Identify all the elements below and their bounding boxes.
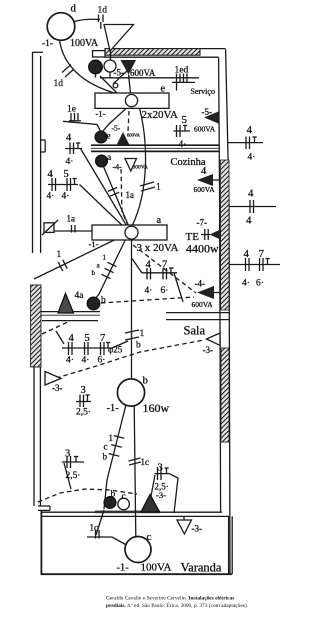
svg-text:4: 4 [246,215,252,227]
wall right inner line [219,57,221,512]
outlet triangle Varanda filled up [141,495,160,513]
svg-text:4: 4 [244,248,250,260]
switch 1 b conduit ticks [125,330,139,340]
outlet triangle Varanda open below wall (-3-) [177,520,191,534]
wire dashed Varanda arc [38,489,137,502]
wire triangle top to outlet circle [110,51,112,60]
wire 1c run to lamp c [112,537,127,545]
wire outlet b down to 1c run [96,510,104,535]
svg-text:100VA: 100VA [70,38,99,49]
wire fixture 1 to outlet e [103,106,129,131]
wire dashed door gap left [42,321,70,334]
svg-text:-1-: -1- [107,403,120,414]
outlet triangle top open (circuit 1d) [104,25,134,52]
svg-text:4: 4 [69,333,75,344]
wire link 457 group to conduit [112,341,128,348]
svg-text:4: 4 [248,188,254,200]
outlet triangle left wall Sala open (-3-) [45,372,61,386]
svg-text:-7-: -7- [197,218,208,228]
outlet triangle right wall Cozinha (4 600VA) [197,174,220,186]
lamp b 160w [117,379,144,406]
outlet triangle Sala bottom filled up (4a) [58,294,74,314]
svg-text:1c: 1c [90,523,99,533]
svg-text:b: b [92,269,96,277]
svg-text:1c: 1c [141,457,150,467]
svg-text:3: 3 [81,385,86,396]
switch 1c mid [129,458,142,465]
wire 1c horizontal run [87,536,112,538]
svg-text:600VA: 600VA [194,185,216,194]
svg-text:1d: 1d [98,6,108,16]
svg-text:4: 4 [247,124,253,136]
svg-text:6·: 6· [98,356,106,366]
wire lamp d to fixture 1 [60,41,116,94]
svg-text:5: 5 [182,114,188,126]
wire switch 1e to outlet e [63,121,101,131]
svg-text:c: c [104,442,108,452]
svg-text:4: 4 [48,169,54,180]
wire diagonal left wall to fixture 2 [34,237,122,280]
svg-text:1: 1 [57,250,62,260]
svg-text:prediais. 4.ª ed. São Paulo: É: prediais. 4.ª ed. São Paulo: Érica, 2000… [106,601,248,609]
wire triangle 600VA drop to fixture 1 [129,75,131,94]
wall bottom [41,573,232,575]
svg-text:600VA: 600VA [127,133,141,138]
wire link 457 group left [56,331,64,344]
outlet triangle open V (Cozinha -4- 600VA) [125,159,137,172]
svg-text:b: b [101,296,106,306]
wire switch 3 left slant [64,463,71,489]
svg-text:4·: 4· [145,286,153,296]
svg-text:4·: 4· [47,192,55,202]
switch 4 left wall [65,143,82,155]
svg-text:Sala: Sala [184,324,206,338]
switch 1d top [99,15,104,30]
svg-text:600VA: 600VA [192,300,214,309]
wire drop from open box top [109,72,111,78]
wall right hatched band (Sala) [221,348,229,442]
svg-text:1a: 1a [126,190,135,200]
wire wall switch 4-5 to fixture 2 [80,185,128,231]
svg-text:e: e [107,132,111,142]
svg-text:2x20VA: 2x20VA [142,109,179,121]
svg-text:-1-: -1- [89,239,99,249]
svg-text:Varanda: Varanda [181,561,222,575]
wall Sala north, left segment [40,312,100,321]
svg-text:6·: 6· [161,286,169,296]
wire parallel into fixture 1 [100,76,118,94]
svg-text:4·: 4· [248,153,256,163]
wire main vertical fixture 2 to lamp b [131,240,133,379]
svg-text:-3-: -3- [156,490,166,500]
svg-text:7: 7 [259,248,265,260]
wall right hatched band (Cozinha) [221,160,229,310]
wire lamp d to switch 1d top [75,19,101,21]
svg-text:b: b [111,490,116,500]
svg-text:-3-: -3- [203,345,214,355]
svg-text:c: c [147,531,152,543]
wall left Varanda [40,510,42,574]
svg-text:6·: 6· [256,279,264,289]
wire fixture 2 to outlet b Sala [96,240,126,299]
wall left lower, inner line [39,367,41,506]
ceiling box dark (top, near lamp outlets) [89,60,103,74]
wire dashed outlet b to outlet -4- [101,297,194,303]
switch 1c bottom [96,530,100,539]
wall top (Serviço north wall, hatched) [105,49,200,56]
svg-text:4·: 4· [179,140,187,150]
lamp c 100VA [125,537,151,563]
ceiling box dark a [96,155,108,167]
outlet triangle filled below top wall (600VA) [121,60,137,75]
svg-text:100VA: 100VA [141,562,172,574]
svg-text:160w: 160w [143,401,170,415]
svg-text:4a: 4a [75,291,85,301]
wall left lower step [38,506,50,510]
outlet triangle filled up (near e outlet) [116,132,130,146]
ceiling box dark e [95,131,107,143]
svg-text:3: 3 [65,449,70,460]
switch 1a left [72,225,76,233]
wire dashed fixture 1 to triangle [128,111,129,131]
wall mounting bar under Varanda outlets [95,511,160,514]
svg-text:2,5·: 2,5· [66,471,81,481]
svg-text:-5-: -5- [202,107,213,117]
wire wall switch 4 to fixture 2 [81,149,129,229]
wire horizontal under top outlets [100,77,199,79]
svg-text:e: e [161,84,166,95]
ceiling box open circle (top) [104,60,116,72]
switch 1ed [172,74,195,83]
svg-text:4·: 4· [242,279,250,289]
switch 3 2,5 Varanda [155,467,171,480]
svg-text:1e: 1e [67,105,76,115]
TE arrow with ticks (shower feed) [201,229,221,240]
wall right outer line [226,49,230,574]
wire 1ed drop [176,82,178,90]
wall Varanda north [41,512,230,516]
switch 3 2,5 Sala [76,395,91,408]
wall left hatched band [31,285,41,367]
switch 1d on lamp d wire [62,65,74,78]
switch 5 4 under fixture 1 [174,125,191,137]
svg-text:600VA: 600VA [130,68,156,78]
svg-text:2,5·: 2,5· [76,408,91,418]
svg-text:c: c [122,492,126,502]
wire dashed Cozinha triangle to fixture 2 [121,169,128,225]
wire Varanda switch right side [170,474,178,513]
svg-text:1: 1 [103,254,107,262]
svg-text:5: 5 [85,333,90,344]
outlet triangle right wall Sala open (-3-) [207,333,221,345]
svg-text:3 x 20VA: 3 x 20VA [137,242,179,254]
svg-text:1a: 1a [67,214,76,224]
wire stub to open triangle Varanda [183,516,185,520]
svg-text:1: 1 [140,329,145,339]
svg-text:4·: 4· [66,157,74,167]
svg-text:φ25: φ25 [108,345,123,355]
svg-text:5: 5 [64,169,69,180]
svg-text:600VA: 600VA [133,165,149,171]
svg-text:b: b [143,375,149,387]
switch 1e [69,113,81,121]
node loop above fixture 1 [113,83,118,88]
switch 1 on diagonal [58,260,67,271]
svg-text:600VA: 600VA [194,125,216,134]
wall Varanda right double [229,516,233,574]
svg-text:-1-: -1- [96,109,106,119]
wire fixture 1 to fixture 2 long curve [132,106,146,226]
svg-text:4·: 4· [66,356,74,366]
switch 4-5-7 Sala [62,342,112,355]
wire dashed Sala crossing [56,340,204,378]
svg-text:3: 3 [158,463,163,474]
wire right feeder 1 [228,137,263,150]
wire left box 1a to fixture 2 [54,230,92,232]
wire lamp b to Varanda outlet b [104,406,126,510]
wall between Serviço and Cozinha [91,145,220,151]
fluorescent fixture 2x20VA (Serviço) [95,93,169,108]
ceiling box open c (Varanda) [118,498,130,510]
outlet triangle right wall Serviço (-5- 600VA) [204,111,220,124]
wall left top cap [32,51,43,53]
ceiling box dark b (Sala) [87,297,100,310]
wall Sala north, right segment [166,313,230,320]
svg-text:4: 4 [66,133,72,144]
outlet triangle right wall lower (-4- 600VA) [197,286,220,299]
svg-text:7: 7 [100,333,105,344]
switch 3 2,5 left [62,456,84,468]
wire Varanda switch left side [148,475,155,512]
svg-text:-1-: -1- [42,39,53,49]
switch 1 c b on lamp b left wire [109,436,125,457]
svg-text:1: 1 [156,183,161,193]
svg-text:b: b [136,341,141,351]
wall left upper, outer line [32,52,34,253]
wire right feeder 3 [229,258,280,271]
wall box diagonal strike [42,220,58,235]
wire crossing X above fixture 1 [113,71,128,85]
wire outlet a to fixture 2 [104,167,129,227]
svg-text:-5-: -5- [112,124,121,133]
ceiling box dark b (Varanda) [104,497,116,509]
svg-text:4·: 4· [82,356,90,366]
switch ticks a b on Sala drop [102,262,117,278]
svg-text:b: b [103,452,108,462]
lamp d 100VA [47,13,75,41]
wire drop from dark box top [95,74,97,78]
fluorescent fixture 3x20VA (Cozinha) [92,225,167,240]
svg-text:-3-: -3- [192,524,203,534]
wall top left end cap [93,51,106,57]
svg-text:-5-: -5- [114,68,125,78]
svg-text:-4-: -4- [195,279,206,289]
svg-text:-4-: -4- [113,163,123,172]
wall box 1a on left wall [44,223,54,233]
wall left lower, outer line [33,367,35,506]
svg-text:4·: 4· [62,192,70,202]
wire dashed fixture 2 to outlet -4- [133,245,196,293]
svg-text:4: 4 [146,260,152,271]
wire lamp b to lamp c [134,406,136,537]
switch 4-7 Cozinha [142,268,177,280]
svg-text:Geraldo Cavalin e Severino Cer: Geraldo Cavalin e Severino Cervelin. Ins… [106,596,234,602]
svg-text:1d: 1d [54,79,64,89]
wire link to switch 4-7 [132,259,142,274]
svg-text:a: a [157,215,162,226]
switch 1 on long curve [140,182,155,191]
svg-text:4: 4 [201,166,207,177]
wire switch 4-7 down to outlet [174,273,183,302]
svg-text:Serviço: Serviço [191,87,215,96]
wire right feeder 2 [229,200,276,213]
switch 4-5 left [48,178,78,191]
svg-text:-1-: -1- [117,563,130,574]
svg-text:7: 7 [162,260,167,271]
svg-text:4400w: 4400w [186,242,219,256]
svg-text:-3-: -3- [52,383,63,393]
wall left jog [41,140,46,152]
svg-text:1ed: 1ed [175,66,189,76]
switch 1a mid [108,188,119,197]
svg-text:1: 1 [109,433,114,443]
wall left upper, inner line [40,56,42,253]
svg-text:d: d [71,3,77,15]
